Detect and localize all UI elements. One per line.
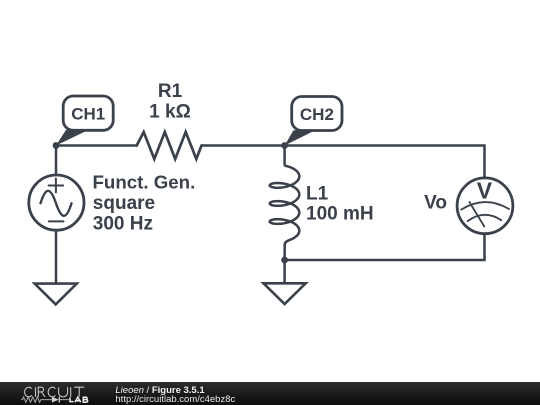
logo diode (52, 397, 59, 403)
svg-text:http://circuitlab.com/c4ebz8c: http://circuitlab.com/c4ebz8c (115, 394, 235, 405)
wire (55, 231, 58, 283)
svg-text:Vo: Vo (424, 192, 447, 213)
wire (202, 144, 285, 147)
svg-text:100 mH: 100 mH (306, 203, 374, 224)
svg-text:300 Hz: 300 Hz (93, 214, 153, 235)
svg-text:L1: L1 (306, 183, 329, 204)
function generator V1 (29, 175, 84, 230)
svg-text:Funct. Gen.: Funct. Gen. (93, 172, 196, 193)
ground (35, 284, 77, 305)
wire (56, 144, 137, 147)
logo LAB (70, 397, 88, 402)
wire (285, 146, 485, 179)
svg-text:CH2: CH2 (300, 105, 334, 124)
wire (285, 234, 485, 260)
wire (283, 260, 286, 283)
svg-text:V: V (477, 177, 493, 203)
svg-text:1 kΩ: 1 kΩ (149, 102, 191, 123)
node B (281, 142, 288, 149)
wire (55, 146, 58, 175)
node A (53, 142, 60, 149)
logo CIRCUIT (25, 387, 85, 397)
resistor R1 (137, 132, 202, 159)
voltmeter (457, 177, 513, 233)
ground (264, 283, 306, 304)
logo squiggle wire (21, 397, 69, 402)
node C (281, 257, 288, 264)
CH1 label (56, 96, 113, 146)
svg-text:CH1: CH1 (71, 104, 105, 123)
svg-text:square: square (93, 193, 155, 214)
inductor L1 (270, 146, 300, 261)
CH2 label (285, 97, 342, 146)
svg-text:R1: R1 (158, 81, 183, 102)
